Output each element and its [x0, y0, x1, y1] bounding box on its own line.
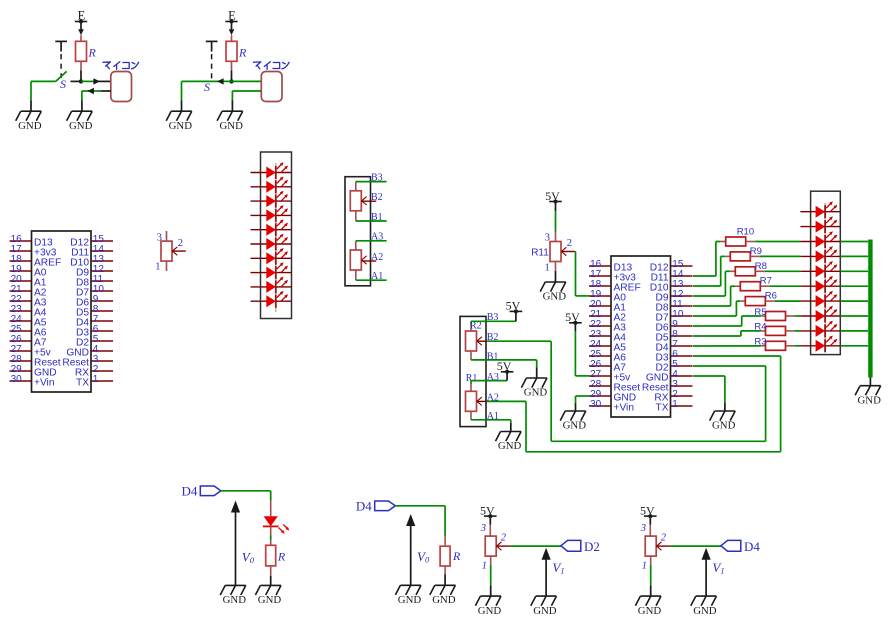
potentiometer VR-A wiper arrow	[362, 256, 367, 264]
wire U2 D5 to R4	[693, 331, 766, 336]
LED array LA2 lead 2	[800, 226, 840, 228]
U2 pin 13 (D10)	[650, 279, 693, 294]
wire U2 D7 to R6	[693, 301, 745, 316]
U1 pin 7 (D4)	[76, 314, 113, 329]
resistor R10	[726, 237, 746, 246]
ground U2 pin29	[560, 411, 586, 432]
LED LA2-2	[816, 216, 838, 233]
wire resistor R to ground (D)	[444, 566, 446, 585]
LED LA1-9	[266, 277, 288, 294]
wire R3 to LED array	[786, 345, 801, 347]
U2 pin 14 (D11)	[651, 269, 693, 284]
LED array LA1 lead 1	[251, 172, 292, 174]
ground F pot	[635, 596, 661, 617]
wire resistor R to node (A)	[80, 61, 82, 79]
resistor R7	[740, 282, 760, 291]
U1 pin 17 (+3v3)	[10, 244, 57, 259]
resistor R4	[766, 326, 786, 335]
wire node to microcontroller (A)	[81, 80, 111, 82]
LED LA2-3	[816, 231, 838, 248]
U2 pin 25 (A6)	[589, 349, 626, 364]
svg-text:3: 3	[640, 523, 646, 534]
wire U2 D11 to R10	[693, 242, 726, 277]
wire U2 D9 to R8	[693, 271, 735, 296]
power 5V supply for U2 +5v	[565, 310, 582, 325]
svg-text:GND: GND	[638, 605, 662, 617]
svg-text:A1: A1	[371, 271, 383, 282]
power E supply EB	[225, 8, 237, 35]
U2 pin 8 (D5)	[655, 329, 692, 344]
wire U2 D4 to R3	[693, 345, 766, 347]
potentiometer VR1 body	[161, 241, 172, 261]
U2 pin 28 (Reset)	[589, 379, 640, 394]
svg-text:B3: B3	[487, 312, 499, 323]
potentiometer R11 body	[550, 242, 561, 262]
voltage arrow V0 (C)	[231, 501, 240, 586]
svg-text:GND: GND	[219, 120, 243, 132]
wire R10 to LED array	[746, 241, 801, 243]
U1 pin 30 (+Vin)	[10, 374, 55, 389]
VR-B bottom lead	[355, 211, 357, 221]
U2 pin 15 (D12)	[650, 259, 693, 274]
ground U2 pin4	[710, 411, 736, 432]
U2 pin 24 (A5)	[589, 339, 626, 354]
U1 pin 25 (A6)	[10, 324, 47, 339]
ground bus (thick)	[868, 240, 872, 378]
net tag D4-D	[375, 501, 396, 511]
U1 pin 23 (A4)	[10, 304, 47, 319]
pot E wiper lead	[496, 545, 510, 547]
wire LA2 row 10 to ground bus	[840, 345, 868, 347]
LED array LA2 lead 7	[800, 300, 840, 302]
wire R11 wiper to U2 pin19 A0	[576, 252, 590, 296]
wire LA2 row 7 to ground bus	[840, 300, 868, 302]
power E supply EA	[75, 8, 87, 35]
R2 bottom lead	[470, 351, 472, 360]
LED array LA2 lead 6	[800, 285, 840, 287]
LED array LA1 cathode rail	[275, 163, 277, 312]
wire R9 to LED array	[750, 255, 800, 257]
VR-B top lead	[355, 182, 357, 191]
ground C arrow	[220, 585, 246, 606]
U2 pin 29 (GND)	[589, 389, 636, 404]
power 5V supply for pot E	[480, 503, 497, 518]
LED array LA1 lead 6	[251, 243, 292, 245]
svg-text:1: 1	[482, 561, 487, 572]
wire LA2 row 8 to ground bus	[840, 315, 868, 317]
wire R8 to LED array	[755, 270, 800, 272]
wire switch fixed contact to node (A)	[71, 80, 82, 82]
LED LA1-3	[266, 191, 288, 208]
LED array LA2 cathode rail	[824, 203, 826, 351]
U1 pin 3 (Reset)	[62, 354, 113, 369]
svg-text:1: 1	[672, 399, 678, 410]
U1 pin 11 (D8)	[76, 274, 113, 289]
signal arrow toward switch node (A)	[87, 88, 94, 94]
U2 pin 1 (TX)	[655, 399, 692, 414]
U1 pin 27 (+5v)	[10, 344, 52, 359]
U1 pin 6 (D3)	[76, 324, 113, 339]
potentiometer VR1 top lead	[166, 231, 168, 241]
voltage arrow V0 (D)	[406, 514, 415, 585]
LED LA1-2	[266, 177, 288, 194]
svg-text:1: 1	[93, 374, 99, 385]
U1 pin 14 (D11)	[71, 244, 113, 259]
signal arrow toward microcontroller (A)	[93, 78, 100, 84]
U2 pin 4 (GND)	[646, 369, 693, 384]
pot F wiper lead	[656, 545, 670, 547]
pushbutton actuator (A)	[55, 41, 67, 78]
voltage arrow V1 (E)	[542, 548, 551, 596]
svg-text:D2: D2	[584, 539, 600, 554]
potentiometer pot E body	[485, 536, 496, 556]
resistor R5	[766, 312, 786, 321]
svg-text:1: 1	[155, 262, 160, 273]
potentiometer VR-B wiper arrow	[362, 197, 367, 205]
wire bus to ground	[869, 378, 871, 386]
LED array LA2 lead 9	[800, 330, 840, 332]
LED array LA2 lead 5	[800, 270, 840, 272]
svg-text:+Vin: +Vin	[614, 403, 635, 414]
LED LA1-4	[266, 205, 288, 222]
potentiometer VR1 wiper arrow	[172, 247, 177, 255]
wire E to resistor R (A)	[80, 35, 82, 41]
LED array LA1 lead 9	[251, 286, 292, 288]
microcontroller box マイコン (A)	[111, 72, 132, 102]
svg-text:GND: GND	[543, 291, 567, 303]
wire A3 to 5V	[471, 380, 507, 382]
svg-text:R4: R4	[754, 322, 766, 333]
LED array LA2 lead 10	[800, 345, 840, 347]
ground A switch side	[16, 111, 42, 132]
svg-text:2: 2	[661, 532, 667, 543]
U1 pin 2 (RX)	[75, 364, 113, 379]
svg-text:A3: A3	[371, 232, 383, 243]
IC U2 body	[611, 256, 671, 417]
LED LA1-1	[266, 162, 288, 179]
LED LA2-5	[816, 261, 838, 278]
svg-text:GND: GND	[69, 120, 93, 132]
svg-text:R11: R11	[531, 248, 549, 259]
wire node to microcontroller (B)	[232, 80, 262, 82]
svg-text:R7: R7	[760, 276, 772, 287]
svg-text:D4: D4	[356, 499, 372, 514]
svg-text:30: 30	[11, 374, 23, 385]
R11 wiper lead	[561, 251, 576, 253]
ground R11	[540, 282, 566, 303]
VR-B wiper lead	[361, 200, 376, 202]
svg-text:R: R	[238, 46, 247, 60]
potentiometer pot E wiper arrow	[497, 542, 502, 550]
LED array LA2 lead 4	[800, 255, 840, 257]
net tag D2-E	[561, 540, 581, 551]
potentiometer VR-A body	[350, 250, 361, 270]
net tag D4-C	[200, 486, 221, 496]
net tag D4-F	[721, 540, 741, 551]
signal arrow toward S (B)	[217, 78, 224, 84]
svg-text:GND: GND	[693, 605, 717, 617]
svg-text:R2: R2	[470, 321, 482, 332]
U2 pin 3 (Reset)	[642, 379, 693, 394]
wire U2 D6 to R5	[693, 316, 766, 326]
svg-text:R9: R9	[750, 246, 762, 257]
svg-text:GND: GND	[169, 120, 193, 132]
wire 5V stub to A3	[506, 372, 508, 381]
wire pot F wiper to tag D4	[670, 545, 721, 547]
ground D resistor	[430, 585, 456, 606]
LED array LA1 lead 5	[251, 229, 292, 231]
U2 pin 22 (A3)	[589, 319, 626, 334]
wire LA2 row 6 to ground bus	[840, 285, 868, 287]
IC U1 body	[32, 231, 92, 392]
wire A1 to ground	[471, 420, 511, 432]
LED array LA1 lead 7	[251, 257, 292, 259]
svg-text:R6: R6	[765, 291, 777, 302]
U2 pin 12 (D9)	[655, 289, 692, 304]
wire resistor R to ground (C)	[270, 566, 272, 585]
wire pot E to ground	[490, 556, 492, 596]
svg-text:R5: R5	[754, 307, 766, 318]
svg-text:R: R	[88, 46, 97, 60]
LED LA1-5	[266, 219, 288, 236]
R2 wiper lead	[477, 340, 488, 342]
label マイコン (A)	[103, 62, 139, 70]
potentiometer pot F body	[645, 536, 656, 556]
U2 pin 21 (A2)	[589, 309, 626, 324]
ground A1	[496, 432, 522, 453]
potentiometer R2 wiper arrow	[477, 337, 482, 345]
svg-text:D4: D4	[182, 484, 198, 499]
wire left down to ground (A)	[30, 81, 32, 111]
VR1 wiper lead	[172, 250, 186, 252]
svg-text:D4: D4	[744, 539, 760, 554]
wire LA2 row 9 to ground bus	[840, 330, 868, 332]
U1 pin 16 (D13)	[10, 234, 54, 249]
node junction dot (A)	[79, 79, 83, 83]
wire 5V to R11	[555, 202, 557, 242]
LED array LA2 lead 3	[800, 241, 840, 243]
U1 pin 12 (D9)	[76, 264, 113, 279]
svg-text:GND: GND	[223, 594, 247, 606]
svg-text:2: 2	[178, 238, 183, 249]
wire U2 pin29 GND to ground	[576, 396, 590, 411]
svg-text:GND: GND	[398, 594, 422, 606]
U1 pin 26 (A7)	[10, 334, 47, 349]
wire left down to ground (B)	[181, 81, 183, 111]
R1 top lead	[470, 381, 472, 392]
U2 pin 27 (+5v)	[589, 369, 631, 384]
U1 pin 10 (D7)	[76, 284, 113, 299]
wire B1 to ground	[471, 360, 537, 378]
U1 pin 19 (A0)	[10, 264, 47, 279]
LED LA2-6	[816, 276, 838, 293]
potentiometer R11 wiper arrow	[561, 247, 566, 255]
LED array module LA2 box	[811, 191, 841, 354]
svg-text:GND: GND	[432, 594, 456, 606]
svg-text:+Vin: +Vin	[34, 378, 55, 389]
svg-text:A1: A1	[487, 411, 499, 422]
U2 pin 23 (A4)	[589, 329, 626, 344]
svg-text:GND: GND	[258, 594, 282, 606]
potentiometer R1 wiper arrow	[477, 397, 482, 405]
LED array LA2 lead 8	[800, 315, 840, 317]
node junction dot (B)	[229, 79, 233, 83]
LED LA2-10	[816, 336, 838, 353]
resistor R (C)	[266, 545, 276, 566]
svg-text:B2: B2	[487, 332, 499, 343]
potentiometer pot F wiper arrow	[657, 542, 662, 550]
svg-text:R3: R3	[754, 337, 766, 348]
U1 pin 15 (D12)	[70, 234, 113, 249]
wire R4 to LED array	[786, 330, 801, 332]
svg-text:GND: GND	[563, 420, 587, 432]
VR-A wiper lead	[361, 260, 376, 262]
wire A1	[356, 279, 387, 281]
U2 pin 9 (D6)	[655, 319, 692, 334]
U2 pin 7 (D4)	[655, 339, 692, 354]
U1 pin 9 (D6)	[76, 294, 113, 309]
svg-text:R: R	[277, 550, 286, 564]
potentiometer R2 body	[466, 331, 477, 351]
ground E pot	[475, 596, 501, 617]
wire 5V stub to B3	[515, 311, 517, 321]
power 5V supply for A3	[497, 359, 514, 374]
svg-text:S: S	[60, 77, 66, 91]
LED LA2-8	[816, 306, 838, 323]
wire D4 tag to LED (C)	[221, 491, 271, 516]
U1 pin 4 (GND)	[66, 344, 113, 359]
svg-text:R10: R10	[737, 227, 754, 238]
voltage arrow V1 (F)	[702, 548, 711, 596]
wire LA2 row 3 to ground bus	[840, 241, 868, 243]
ground F arrow	[691, 596, 717, 617]
wire B3	[356, 181, 387, 183]
U1 pin 13 (D10)	[70, 254, 113, 269]
wire E to resistor R (B)	[231, 35, 233, 41]
wire A2 net R1 wiper to U2 pin6 D3	[487, 356, 780, 452]
ground LED bus	[855, 386, 881, 407]
svg-text:1: 1	[545, 262, 550, 273]
potentiometer VR-B body	[350, 191, 361, 211]
wire microcontroller lower pin to ground (B)	[232, 91, 261, 111]
svg-text:B1: B1	[371, 212, 383, 223]
wire resistor R to node (B)	[231, 61, 233, 79]
wire R6 to LED array	[765, 300, 800, 302]
ground B switch side	[166, 111, 192, 132]
wire LA2 row 5 to ground bus	[840, 270, 868, 272]
svg-text:1: 1	[642, 561, 647, 572]
wire switch line GND to node (B)	[182, 80, 232, 82]
wire R5 to LED array	[786, 315, 801, 317]
wire LA2 row 4 to ground bus	[840, 255, 868, 257]
LED LA2-1	[816, 201, 838, 218]
svg-text:A3: A3	[487, 372, 499, 383]
svg-text:TX: TX	[76, 378, 89, 389]
LED LA1-7	[266, 248, 288, 265]
svg-text:GND: GND	[478, 605, 502, 617]
U1 pin 22 (A3)	[10, 294, 47, 309]
wire 5V to pot (F)	[649, 516, 651, 536]
wire pot E wiper to tag D2	[510, 545, 561, 547]
U2 pin 10 (D7)	[655, 309, 692, 324]
LED LA1-6	[266, 234, 288, 251]
U2 pin 6 (D3)	[655, 349, 692, 364]
U1 pin 1 (TX)	[76, 374, 113, 389]
U2 pin 19 (A0)	[589, 289, 626, 304]
svg-text:R8: R8	[755, 261, 767, 272]
pushbutton actuator (B)	[206, 41, 218, 80]
svg-text:GND: GND	[524, 387, 548, 399]
wire U2 D10 to R9	[693, 256, 730, 286]
U1 pin 21 (A2)	[10, 284, 47, 299]
resistor R9	[730, 252, 750, 261]
wire B2 net R2 wiper to U2 pin5 D2	[487, 341, 765, 441]
svg-text:B3: B3	[371, 172, 383, 183]
LED LA2-9	[816, 321, 838, 338]
svg-text:TX: TX	[655, 403, 668, 414]
resistor R (B)	[226, 41, 237, 61]
wire B1	[356, 220, 387, 222]
R1 bottom lead	[470, 411, 472, 420]
resistor R8	[735, 267, 755, 276]
U1 pin 8 (D5)	[76, 304, 113, 319]
resistor R3	[766, 341, 786, 350]
svg-text:GND: GND	[18, 120, 42, 132]
U2 pin 26 (A7)	[589, 359, 626, 374]
wire U2 pin4 GND to ground	[693, 376, 725, 411]
svg-text:3: 3	[157, 233, 162, 244]
dual potentiometer block box	[345, 177, 371, 286]
power 5V supply for R11	[545, 189, 562, 204]
LED LA2-7	[816, 291, 838, 308]
U1 pin 28 (Reset)	[10, 354, 61, 369]
U2 pin 2 (RX)	[654, 389, 692, 404]
U2 pin 16 (D13)	[589, 259, 633, 274]
LED LA1-8	[266, 262, 288, 279]
svg-text:GND: GND	[533, 605, 557, 617]
U2 pin 30 (+Vin)	[589, 399, 634, 414]
U2 pin 18 (AREF)	[589, 279, 641, 294]
ground B mcu side	[217, 111, 243, 132]
wire GND to switch (A)	[31, 80, 56, 82]
resistor R6	[745, 297, 765, 306]
svg-text:B2: B2	[371, 192, 383, 203]
svg-text:2: 2	[567, 238, 572, 249]
wire 5V to pot (E)	[489, 516, 491, 536]
R2 top lead	[470, 321, 472, 331]
switch S blade (open)	[56, 71, 67, 81]
U2 pin 5 (D2)	[655, 359, 692, 374]
power 5V supply for pot F	[640, 503, 657, 518]
U1 pin 20 (A1)	[10, 274, 47, 289]
wire microcontroller lower pin to ground (A)	[82, 91, 111, 111]
VR-A bottom lead	[355, 270, 357, 280]
microcontroller box マイコン (B)	[261, 72, 282, 102]
svg-text:GND: GND	[498, 440, 522, 452]
U1 pin 29 (GND)	[10, 364, 57, 379]
svg-text:2: 2	[501, 532, 507, 543]
wire U2 D8 to R7	[693, 286, 740, 306]
svg-text:A2: A2	[487, 393, 499, 404]
LED array LA1 lead 10	[251, 300, 292, 302]
label マイコン (B)	[254, 62, 290, 70]
U1 pin 18 (AREF)	[10, 254, 62, 269]
U2 pin 11 (D8)	[655, 299, 692, 314]
LED D (C) anode triangle	[263, 516, 289, 534]
ground C resistor	[255, 585, 281, 606]
wire B3 to 5V	[471, 320, 516, 322]
VR-A top lead	[355, 241, 357, 250]
